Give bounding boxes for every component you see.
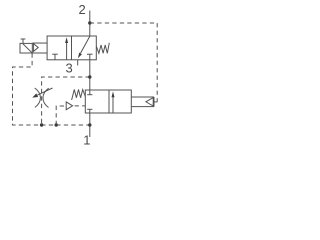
svg-text:2: 2 <box>79 2 86 17</box>
svg-text:1: 1 <box>83 132 90 147</box>
svg-text:3: 3 <box>66 60 73 75</box>
